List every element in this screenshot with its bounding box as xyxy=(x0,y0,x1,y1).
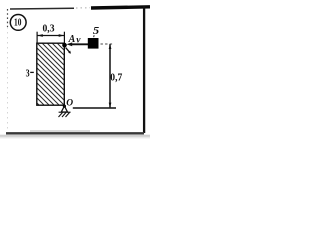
svg-text:5: 5 xyxy=(93,25,100,37)
svg-text:0,7: 0,7 xyxy=(110,72,122,83)
svg-text:10: 10 xyxy=(14,17,21,28)
svg-text:O: O xyxy=(66,99,73,109)
svg-text:0,3: 0,3 xyxy=(43,23,55,34)
svg-text:3: 3 xyxy=(26,68,30,79)
